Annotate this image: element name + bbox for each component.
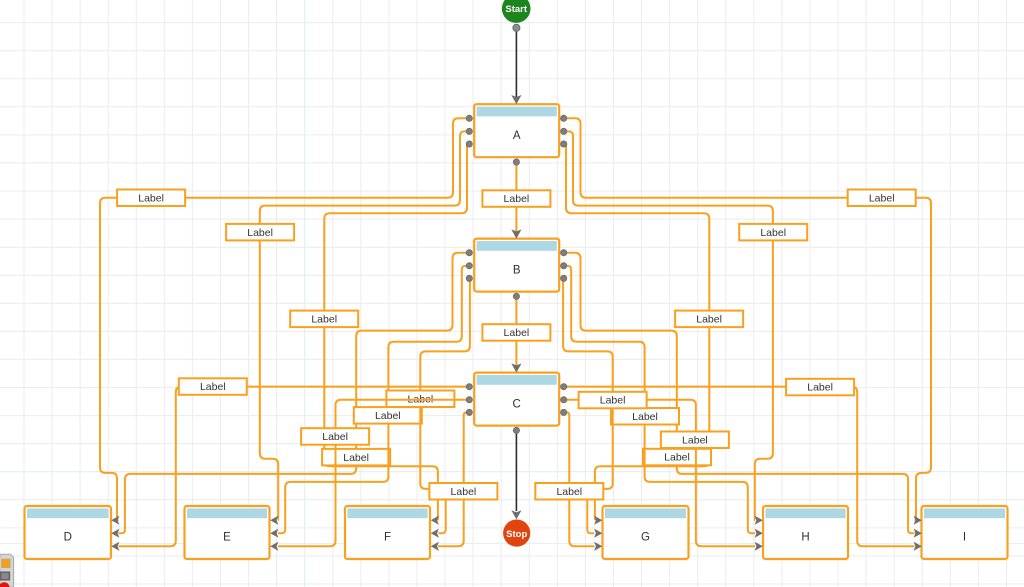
svg-text:Label: Label: [682, 434, 708, 446]
stop node Stop: [503, 520, 530, 547]
node H: [763, 506, 848, 559]
wire A-B: [515, 162, 517, 232]
palette panel: [0, 554, 14, 587]
svg-text:Label: Label: [807, 382, 833, 394]
svg-text:B: B: [513, 264, 521, 276]
edge label C-I Label: [786, 379, 854, 396]
svg-text:Label: Label: [869, 192, 895, 204]
arrowhead into E 2: [270, 529, 278, 538]
node F: [345, 506, 430, 559]
port B left 3: [466, 275, 472, 281]
svg-text:Label: Label: [343, 452, 369, 464]
port A right 2: [561, 128, 567, 134]
svg-text:Label: Label: [632, 411, 658, 423]
svg-text:E: E: [223, 532, 231, 544]
wire C-G: [564, 412, 595, 546]
node D: [25, 506, 112, 559]
port A left 2: [466, 128, 472, 134]
svg-text:Label: Label: [504, 327, 530, 339]
edge label B-H Label: [611, 408, 679, 425]
arrowhead into A: [511, 95, 521, 104]
node C: [474, 373, 559, 426]
arrowhead into E 1: [270, 516, 278, 525]
arrowhead into G 3: [594, 542, 602, 551]
svg-text:Label: Label: [375, 410, 401, 422]
wire C-H: [564, 400, 755, 547]
svg-text:Label: Label: [504, 193, 530, 205]
arrowhead into F 1: [431, 516, 439, 525]
node E: [185, 506, 270, 559]
wire A-I: [564, 118, 931, 520]
edge label B-D Label: [322, 449, 390, 466]
edge label C-G Label: [535, 483, 603, 500]
edge label B-G Label: [579, 392, 647, 409]
edge label B-F Label: [386, 391, 454, 408]
arrowhead into H 1: [755, 516, 763, 525]
svg-text:Label: Label: [451, 486, 477, 498]
port B right 2: [561, 263, 567, 269]
wire B-C: [515, 296, 517, 366]
wire A-F: [324, 144, 469, 520]
wire B-F: [420, 279, 470, 534]
edge label A-H Label: [739, 224, 807, 241]
svg-text:Stop: Stop: [506, 529, 527, 540]
svg-text:Label: Label: [247, 227, 273, 239]
svg-text:Label: Label: [138, 192, 164, 204]
port B left 2: [466, 263, 472, 269]
wire A-H: [564, 131, 773, 520]
edge label C-H Label: [661, 432, 729, 449]
node I: [922, 506, 1008, 559]
svg-text:Label: Label: [600, 395, 626, 407]
node G: [603, 506, 689, 559]
svg-text:Label: Label: [311, 314, 337, 326]
arrowhead into Stop: [511, 510, 521, 519]
arrowhead into I 1: [914, 516, 922, 525]
port B left 1: [466, 250, 472, 256]
port C left 2: [466, 397, 472, 403]
arrowhead into E 3: [270, 542, 278, 551]
wire C-D: [119, 387, 470, 547]
wire A-G: [564, 144, 710, 520]
edge label C-E Label: [301, 428, 369, 445]
arrowhead into H 2: [755, 529, 763, 538]
edge label A-B Label: [482, 190, 550, 207]
arrowhead into C: [511, 363, 521, 372]
wire B-H: [564, 266, 755, 533]
port B bottom: [513, 293, 519, 299]
edge label C-F Label: [429, 483, 497, 500]
svg-text:Label: Label: [200, 381, 226, 393]
edge label B-C Label: [482, 324, 550, 341]
svg-text:C: C: [513, 398, 521, 410]
port C right 3: [561, 409, 567, 415]
wire B-D: [119, 253, 470, 533]
svg-text:A: A: [513, 130, 521, 142]
wire B-I: [564, 253, 915, 533]
port C bottom: [513, 427, 519, 433]
port C right 2: [561, 397, 567, 403]
port C right 1: [561, 384, 567, 390]
edge label A-D Label: [117, 190, 185, 207]
wire C-F: [438, 412, 469, 546]
svg-text:Label: Label: [664, 452, 690, 464]
port A left 3: [466, 141, 472, 147]
arrowhead into G 2: [594, 529, 602, 538]
port Start bottom: [513, 24, 520, 31]
arrowhead into G 1: [594, 516, 602, 525]
edge label A-F Label: [290, 311, 358, 328]
wire C-I: [564, 387, 915, 547]
arrowhead into D 1: [111, 516, 119, 525]
wire C-E: [278, 400, 469, 547]
arrowhead into H 3: [755, 542, 763, 551]
wire C-Stop: [515, 430, 517, 511]
node B: [474, 239, 559, 292]
start node Start: [502, 0, 531, 23]
wire B-G: [563, 279, 613, 534]
port A left 1: [466, 115, 472, 121]
node A: [474, 104, 559, 157]
edge label A-I Label: [848, 190, 916, 207]
wire A-D: [100, 118, 469, 520]
svg-text:Label: Label: [322, 431, 348, 443]
edge label C-D Label: [179, 378, 247, 395]
svg-text:H: H: [801, 532, 809, 544]
arrowhead into I 2: [914, 529, 922, 538]
svg-text:I: I: [963, 532, 966, 544]
svg-text:Label: Label: [760, 227, 786, 239]
svg-text:G: G: [641, 532, 650, 544]
port B right 3: [561, 275, 567, 281]
port A right 1: [561, 115, 567, 121]
edge label B-I Label: [643, 449, 711, 466]
svg-text:D: D: [64, 532, 72, 544]
svg-text:Label: Label: [556, 486, 582, 498]
wire B-E: [278, 266, 469, 533]
port A right 3: [561, 141, 567, 147]
wire A-E: [260, 131, 470, 520]
svg-text:F: F: [384, 532, 391, 544]
arrowhead into D 2: [111, 529, 119, 538]
edge label A-G Label: [675, 311, 743, 328]
wire Start-A: [515, 28, 517, 97]
svg-text:Label: Label: [696, 314, 722, 326]
arrowhead into D 3: [111, 542, 119, 551]
port A bottom: [513, 159, 519, 165]
port C left 1: [466, 384, 472, 390]
svg-text:Start: Start: [505, 4, 527, 15]
edge label B-E Label: [354, 407, 422, 424]
edge label A-E Label: [226, 224, 294, 241]
port B right 1: [561, 250, 567, 256]
port C left 3: [466, 409, 472, 415]
arrowhead into F 2: [431, 529, 439, 538]
arrowhead into B: [511, 229, 521, 238]
arrowhead into I 3: [914, 542, 922, 551]
arrowhead into F 3: [431, 542, 439, 551]
